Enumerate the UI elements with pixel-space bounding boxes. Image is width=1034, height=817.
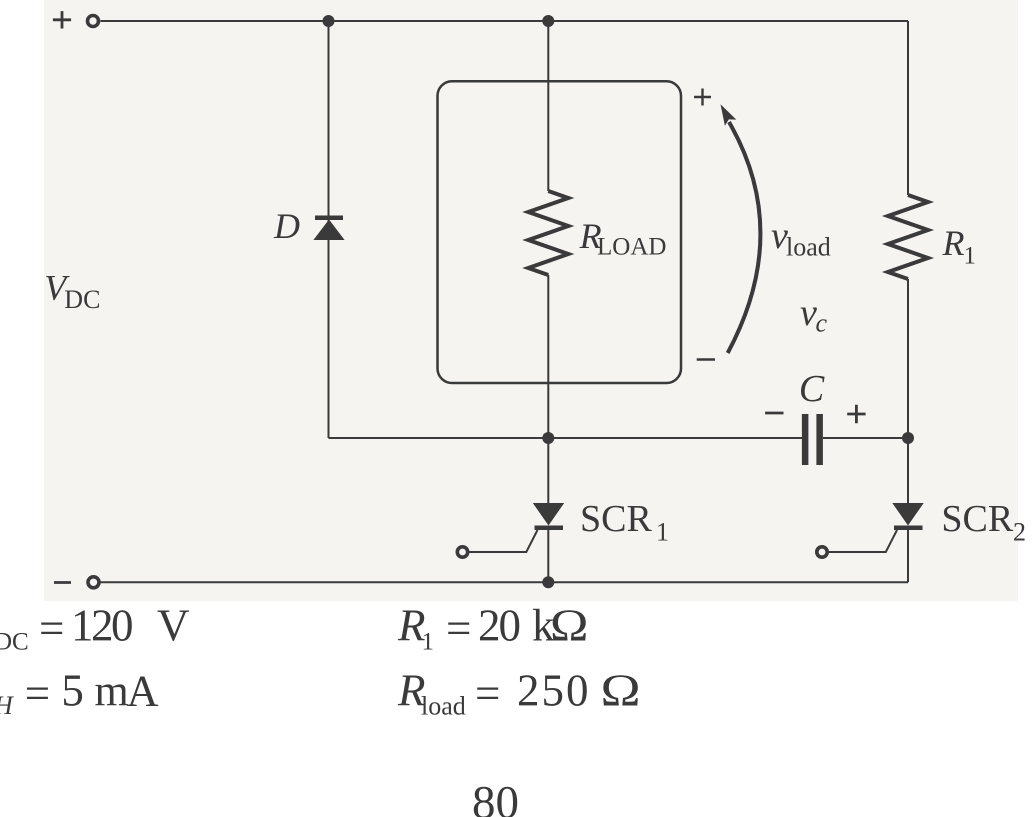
svg-text:mA: mA bbox=[95, 667, 159, 716]
svg-text:1: 1 bbox=[964, 243, 977, 270]
svg-text:SCR: SCR bbox=[941, 498, 1013, 540]
svg-text:H: H bbox=[0, 691, 14, 720]
svg-text:120: 120 bbox=[71, 601, 132, 651]
svg-text:v: v bbox=[800, 292, 817, 334]
svg-text:=: = bbox=[25, 669, 50, 719]
svg-text:c: c bbox=[816, 309, 828, 338]
svg-text:SCR: SCR bbox=[580, 498, 652, 540]
svg-text:=: = bbox=[475, 669, 500, 719]
svg-text:D: D bbox=[273, 206, 300, 246]
svg-text:R: R bbox=[942, 223, 965, 263]
svg-text:1: 1 bbox=[422, 629, 435, 656]
svg-text:=: = bbox=[39, 604, 64, 654]
svg-text:20: 20 bbox=[478, 601, 520, 651]
svg-text:Ω: Ω bbox=[550, 602, 588, 651]
svg-text:LOAD: LOAD bbox=[597, 234, 666, 261]
svg-text:Ω: Ω bbox=[601, 666, 641, 716]
svg-text:DC: DC bbox=[64, 285, 100, 314]
svg-text:1: 1 bbox=[656, 518, 669, 547]
svg-text:250: 250 bbox=[517, 666, 591, 716]
svg-text:V: V bbox=[157, 601, 190, 651]
svg-text:DC: DC bbox=[0, 629, 29, 656]
svg-text:load: load bbox=[421, 692, 466, 721]
svg-text:C: C bbox=[799, 368, 825, 410]
svg-text:2: 2 bbox=[1013, 518, 1026, 547]
svg-text:=: = bbox=[446, 604, 471, 654]
svg-text:80: 80 bbox=[472, 777, 519, 817]
svg-text:load: load bbox=[786, 233, 831, 262]
svg-text:5: 5 bbox=[61, 666, 84, 716]
